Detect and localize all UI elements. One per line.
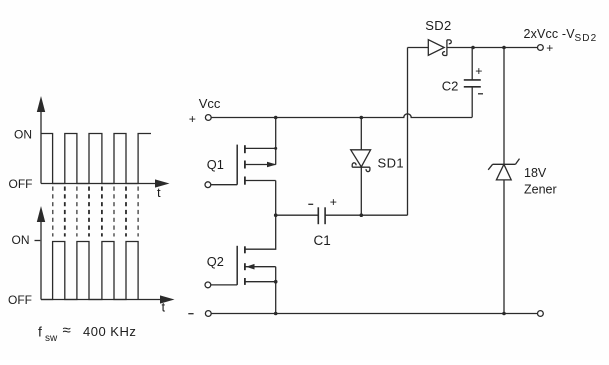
svg-text:OFF: OFF bbox=[8, 293, 32, 307]
wire C2 top lead bbox=[471, 48, 473, 80]
svg-text:≈: ≈ bbox=[63, 322, 71, 339]
waveform 1 vertical axis bbox=[37, 96, 45, 184]
svg-text:18V: 18V bbox=[524, 166, 547, 180]
output terminal 2xVcc-VSD2 bbox=[538, 45, 544, 51]
svg-text:Zener: Zener bbox=[524, 183, 557, 197]
waveform 2 pulse train bbox=[41, 242, 138, 300]
svg-text:Q2: Q2 bbox=[207, 254, 224, 269]
dashed edge alignment lines bbox=[53, 187, 138, 237]
svg-text:SD2: SD2 bbox=[425, 18, 451, 33]
waveform 1 pulse train bbox=[41, 134, 151, 184]
svg-text:Q1: Q1 bbox=[207, 157, 224, 172]
transistor Q1 (P-channel MOSFET) bbox=[237, 145, 277, 185]
junction Q2 source to ground rail bbox=[274, 312, 278, 316]
junction Q2 source bbox=[274, 280, 278, 284]
junction Vcc rail to Q1 source bbox=[274, 116, 278, 120]
Vcc input terminal bbox=[205, 115, 211, 121]
zener diode 18V bbox=[488, 159, 519, 180]
transistor Q2 (N-channel MOSFET) bbox=[237, 246, 276, 285]
Vcc rail wire with crossover hop bbox=[211, 114, 472, 118]
svg-text:Vcc: Vcc bbox=[199, 96, 221, 111]
ground input terminal bbox=[205, 311, 211, 317]
wire Q2 gate lead bbox=[211, 284, 237, 286]
svg-text:t: t bbox=[162, 300, 166, 315]
svg-text:2xVcc -V: 2xVcc -V bbox=[524, 27, 576, 41]
capacitor C2 bbox=[464, 80, 481, 87]
junction zener to ground rail bbox=[502, 312, 506, 316]
C1 minus polarity label bbox=[308, 203, 313, 205]
svg-text:f: f bbox=[38, 324, 42, 340]
junction node A to C1 bbox=[274, 213, 278, 217]
minus terminal label at ground input bbox=[188, 313, 193, 315]
ground rail wire bbox=[211, 313, 537, 315]
wire C1 right plate to node B riser bbox=[325, 214, 407, 216]
junction Vcc rail to SD1 anode bbox=[360, 116, 364, 120]
junction output wire to C2 bbox=[471, 46, 475, 50]
svg-text:SD1: SD1 bbox=[378, 156, 405, 171]
C2 minus polarity label bbox=[478, 93, 483, 95]
schottky diode SD2 bbox=[408, 40, 452, 56]
waveform 2 horizontal time axis bbox=[41, 295, 175, 303]
junction output wire to zener bbox=[502, 46, 506, 50]
ground output terminal bbox=[538, 311, 544, 317]
wire node A to C1 left plate bbox=[276, 214, 319, 216]
svg-text:+: + bbox=[475, 64, 482, 78]
output voltage label 2xVcc -VSD2 bbox=[524, 27, 598, 44]
wire C2 bottom lead to Vcc rail bbox=[471, 87, 473, 118]
svg-text:ON: ON bbox=[12, 233, 30, 247]
transistor Q1 gate terminal bbox=[205, 182, 211, 188]
waveform 2 ON level tick bbox=[35, 240, 41, 242]
waveform 2 vertical axis bbox=[37, 206, 45, 300]
wire SD2 cathode to output terminal bbox=[447, 47, 538, 49]
svg-text:400 KHz: 400 KHz bbox=[83, 324, 136, 339]
svg-text:+: + bbox=[189, 112, 196, 126]
schottky diode SD1 bbox=[351, 118, 371, 216]
wire Q1 gate lead bbox=[211, 184, 237, 186]
transistor Q2 gate terminal bbox=[205, 282, 211, 288]
svg-text:+: + bbox=[330, 195, 337, 209]
wire Q2 body/source down to ground rail bbox=[275, 267, 277, 314]
svg-text:t: t bbox=[157, 185, 161, 200]
capacitor C1 bbox=[318, 207, 325, 224]
svg-text:C2: C2 bbox=[442, 79, 459, 94]
svg-text:+: + bbox=[546, 41, 553, 55]
svg-text:ON: ON bbox=[14, 128, 32, 142]
junction C1 wire to SD1 cathode bbox=[360, 213, 364, 217]
svg-text:C1: C1 bbox=[314, 233, 331, 248]
svg-text:SD2: SD2 bbox=[575, 33, 598, 44]
svg-text:sw: sw bbox=[45, 333, 58, 344]
wire Q1 source/body to Vcc rail bbox=[275, 118, 277, 165]
svg-text:OFF: OFF bbox=[9, 177, 33, 191]
wire Q1 drain down to Q2 drain bbox=[245, 181, 276, 250]
wire node B riser up to SD2 anode (crosses Vcc rail) bbox=[407, 48, 409, 216]
wire zener bottom lead to ground rail bbox=[503, 180, 505, 314]
wire zener top lead bbox=[503, 48, 505, 165]
waveform 1 horizontal time axis bbox=[41, 179, 170, 187]
switching frequency label fsw = 400 KHz bbox=[38, 322, 136, 344]
